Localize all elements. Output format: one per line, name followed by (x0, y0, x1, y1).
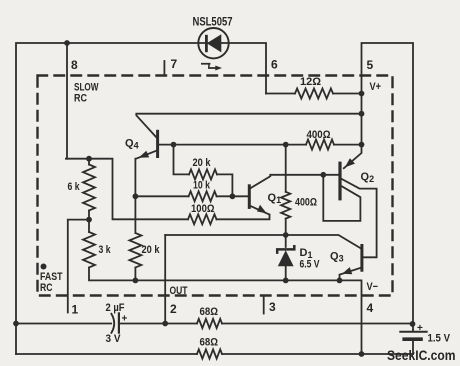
svg-text:10 k: 10 k (193, 180, 211, 192)
junction node 20k bottom (133, 278, 139, 284)
svg-text:RC: RC (74, 93, 87, 105)
resistor 100-ohm (188, 214, 217, 224)
junction node Q3 emitter (337, 278, 343, 284)
resistor 20k vertical (129, 233, 141, 268)
wire battery stubs (412, 324, 414, 355)
junction node D1 top (283, 232, 289, 238)
resistor 3k (83, 232, 95, 268)
LED cathode bar (205, 35, 208, 52)
battery 1.5V short plate (404, 337, 421, 341)
node FAST RC bullet (41, 264, 47, 270)
wire 3k column and V- rail and pin 4 (89, 220, 362, 354)
wire pin 1 (68, 220, 89, 313)
transistor Q1 base bar (248, 186, 251, 208)
svg-text:3: 3 (269, 300, 276, 314)
wire 6k column (88, 159, 90, 220)
junction node Q1 base (230, 193, 236, 199)
svg-text:6.5 V: 6.5 V (300, 259, 321, 271)
wire pin 7 stub (163, 61, 165, 76)
svg-text:400Ω: 400Ω (295, 197, 317, 209)
IC dashed box (38, 76, 393, 296)
svg-text:1: 1 (72, 303, 79, 317)
wire Q4 base line to 400-ohm (159, 144, 362, 146)
wire 10k line to Q1 base (135, 195, 248, 197)
transistor Q2 emitter arrow (345, 158, 355, 167)
wire Q2 dual collector loop to base (323, 175, 360, 221)
svg-text:7: 7 (171, 57, 178, 71)
resistor 68-ohm lower (197, 349, 222, 358)
svg-text:20 k: 20 k (142, 244, 161, 256)
wire Q3 emitter (340, 268, 361, 281)
junction node D1 bottom (283, 278, 289, 284)
wire D1 stubs (285, 235, 287, 281)
svg-text:+: + (417, 323, 423, 334)
wire 400-ohm vertical stubs (285, 145, 287, 235)
zener diode D1 triangle (278, 250, 294, 266)
resistor 400-ohm vertical (281, 192, 290, 219)
resistor 400-ohm horizontal (306, 140, 334, 150)
resistor 6k (83, 165, 95, 211)
junction node V+ emitter Q2 (359, 142, 365, 148)
battery 1.5V long plate (400, 331, 426, 333)
wire Q1 collector to Q2 base (250, 175, 339, 189)
junction node battery top (410, 321, 416, 327)
wire slow-rc run to 100-ohm (66, 159, 270, 220)
svg-text:4: 4 (367, 301, 374, 315)
svg-text:20 k: 20 k (193, 157, 212, 169)
transistor Q3 base bar (360, 246, 363, 271)
junction node Q4 base (171, 142, 177, 148)
wire Q2 collector to Q3 base (342, 179, 377, 257)
junction node 400-ohm top (283, 142, 289, 148)
wire bottom rail inner with capacitor gap (16, 323, 413, 325)
wire pin 3 stub (263, 297, 265, 314)
wire Q1 emitter slant (250, 206, 269, 215)
capacitor 2uF straight plate (118, 313, 120, 332)
resistor 10k (189, 191, 217, 201)
LED NSL5057 circle (198, 28, 228, 58)
LED triangle (207, 34, 222, 52)
svg-text:68Ω: 68Ω (200, 306, 219, 318)
svg-text:100Ω: 100Ω (191, 203, 215, 215)
resistor 12-ohm (295, 89, 333, 99)
resistor 20k horizontal (189, 169, 217, 179)
wire pin 8 drop (66, 43, 68, 159)
svg-text:OUT: OUT (170, 285, 188, 297)
svg-text:5: 5 (367, 58, 374, 72)
wire outer frame left and top (16, 43, 266, 354)
svg-text:400Ω: 400Ω (307, 129, 331, 141)
wire bottom rail outer (16, 353, 413, 355)
junction node pin2 cap rail (162, 321, 168, 327)
wire OUT drop pin 2 (164, 235, 166, 324)
svg-text:6 k: 6 k (68, 181, 81, 193)
svg-text:V+: V+ (370, 81, 382, 93)
svg-text:68Ω: 68Ω (200, 337, 219, 349)
svg-text:V−: V− (367, 281, 379, 293)
LED light arrow (201, 63, 222, 71)
svg-text:3 k: 3 k (99, 244, 112, 256)
zener diode D1 cathode bar (277, 246, 294, 252)
junction node left frame cap rail (13, 321, 19, 327)
wire 20k branch (174, 145, 233, 197)
transistor Q1 emitter arrow (257, 205, 267, 214)
junction node pin4 bottom (359, 351, 365, 357)
svg-text:SeekIC.com: SeekIC.com (387, 348, 456, 363)
transistor Q4 base bar (156, 131, 159, 156)
wire Q4 emitter column to 20k (135, 151, 155, 280)
junction node 10k left (133, 193, 139, 199)
svg-text:+: + (122, 314, 128, 325)
transistor Q4 emitter arrow (139, 151, 150, 158)
wire mid rail OUT to Q3 collector (165, 235, 360, 248)
junction node Q4 collector V+ (359, 111, 365, 117)
junction node 12-ohm V+ (359, 91, 365, 97)
svg-text:8: 8 (71, 58, 78, 72)
svg-text:RC: RC (40, 282, 53, 294)
wire 12-ohm line pin6 to V+ (266, 93, 362, 95)
junction node top pin8 (64, 40, 70, 46)
wire top-right loop pin5 to battery (362, 43, 414, 324)
svg-text:3 V: 3 V (106, 333, 122, 345)
svg-text:2: 2 (170, 302, 177, 316)
capacitor 2uF curved plate (111, 314, 114, 333)
svg-text:NSL5057: NSL5057 (193, 17, 233, 29)
svg-text:6: 6 (271, 58, 278, 72)
junction node 6k bottom (86, 217, 92, 223)
transistor Q3 emitter arrow (342, 267, 352, 274)
resistor 68-ohm upper (197, 319, 222, 328)
wire Q4 collector to V+ (136, 114, 361, 138)
svg-text:12Ω: 12Ω (300, 76, 321, 88)
junction node Q2 base (320, 172, 326, 178)
junction node 6k top (86, 156, 92, 162)
svg-text:1.5 V: 1.5 V (428, 333, 451, 345)
svg-text:2 µF: 2 µF (106, 302, 125, 314)
transistor Q2 base bar (338, 163, 341, 199)
wire Q2 emitter from V+ (344, 145, 362, 169)
